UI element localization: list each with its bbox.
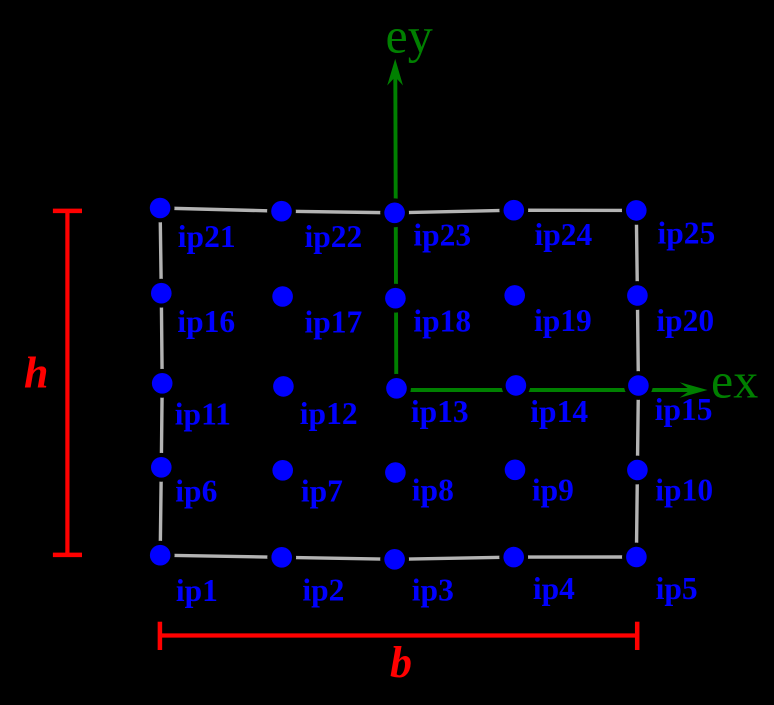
node ip1 <box>146 541 218 608</box>
svg-text:ip21: ip21 <box>178 219 236 254</box>
svg-text:ip16: ip16 <box>177 304 235 339</box>
node ip23 <box>380 198 471 252</box>
node ip5 <box>622 543 698 606</box>
svg-text:ip2: ip2 <box>302 573 344 608</box>
svg-text:ip19: ip19 <box>534 303 592 338</box>
node ip11 <box>148 369 231 432</box>
svg-text:ip9: ip9 <box>532 472 574 507</box>
dimension h <box>24 211 82 555</box>
svg-text:ip20: ip20 <box>656 303 714 338</box>
svg-text:ip5: ip5 <box>656 571 698 606</box>
node ip20 <box>623 281 714 338</box>
node ip17 <box>268 282 362 340</box>
node ip25 <box>622 196 715 251</box>
axis ey <box>386 8 433 389</box>
svg-text:ip22: ip22 <box>305 219 363 254</box>
node ip24 <box>499 196 592 252</box>
svg-text:ip1: ip1 <box>176 573 218 608</box>
node ip8 <box>381 458 454 507</box>
svg-text:ip14: ip14 <box>530 394 588 429</box>
node ip10 <box>623 456 713 508</box>
node ip19 <box>500 281 591 338</box>
svg-text:ip4: ip4 <box>533 571 575 606</box>
node ip16 <box>147 279 235 339</box>
node ip7 <box>268 456 343 509</box>
svg-text:ip15: ip15 <box>655 392 713 427</box>
wire right edge <box>636 210 638 557</box>
node ip14 <box>502 371 589 429</box>
node ip18 <box>381 284 471 339</box>
node ip9 <box>501 455 574 507</box>
axis ex <box>397 352 759 408</box>
svg-text:ip7: ip7 <box>301 474 343 509</box>
node ip12 <box>269 372 358 431</box>
node ip6 <box>147 453 217 508</box>
dimension b <box>160 622 637 687</box>
svg-text:b: b <box>390 638 412 687</box>
node ip13 <box>382 374 469 429</box>
node ip4 <box>499 543 575 606</box>
svg-text:ip23: ip23 <box>413 218 471 253</box>
node ip21 <box>146 194 236 254</box>
svg-text:ip8: ip8 <box>412 472 454 507</box>
wire bottom edge <box>160 555 636 559</box>
svg-text:ip18: ip18 <box>413 304 471 339</box>
wire top edge <box>160 208 636 213</box>
svg-text:ip11: ip11 <box>175 397 231 432</box>
svg-text:ip10: ip10 <box>655 472 713 507</box>
svg-text:ip13: ip13 <box>411 394 469 429</box>
svg-text:ip17: ip17 <box>305 305 363 340</box>
svg-text:ex: ex <box>711 352 758 408</box>
svg-text:ip3: ip3 <box>412 572 454 607</box>
node ip2 <box>267 543 344 608</box>
svg-text:h: h <box>24 349 48 398</box>
wire left edge <box>160 208 162 555</box>
svg-text:ip25: ip25 <box>658 216 716 251</box>
svg-text:ip12: ip12 <box>300 396 358 431</box>
node ip3 <box>380 545 454 607</box>
svg-text:ey: ey <box>386 8 433 64</box>
node ip22 <box>267 197 362 254</box>
svg-text:ip24: ip24 <box>535 217 593 252</box>
node ip15 <box>624 371 712 427</box>
svg-text:ip6: ip6 <box>175 473 217 508</box>
